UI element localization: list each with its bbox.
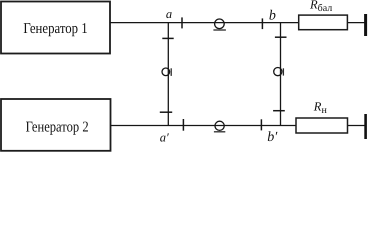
svg-text:Rбал: Rбал — [309, 0, 332, 14]
resistor Rн body — [296, 118, 348, 133]
connector dash under top-wire circle — [213, 29, 226, 31]
connector circle on top wire — [215, 19, 225, 29]
generator G2 box — [1, 99, 111, 151]
clamp tick on top wire after node a — [181, 17, 183, 28]
connector circle on left vertical wire — [162, 68, 170, 76]
connector dash right of right-vertical circle — [282, 68, 284, 75]
wire: right vertical b to b' — [280, 23, 282, 126]
connector circle on bottom wire — [215, 121, 224, 130]
connector circle on right vertical wire — [274, 68, 282, 76]
wire: left vertical a to a' — [167, 23, 169, 126]
svg-text:Генератор 2: Генератор 2 — [26, 119, 89, 135]
clamp tick on top wire before node b — [261, 18, 263, 29]
wire: top horizontal from G1 to right terminal — [110, 22, 365, 24]
svg-text:a: a — [166, 7, 172, 21]
clamp tick on right vertical wire below node b — [275, 36, 287, 38]
clamp tick on bottom wire before node b' — [260, 119, 262, 130]
right terminal bar top — [364, 14, 367, 36]
connector dash under bottom-wire circle — [214, 131, 225, 133]
clamp tick on left vertical wire above node a' — [160, 111, 172, 113]
svg-text:b′: b′ — [267, 130, 278, 145]
clamp tick on right vertical wire above node b' — [273, 110, 285, 112]
svg-text:a′: a′ — [160, 131, 169, 145]
clamp tick on left vertical wire below node a — [162, 37, 173, 39]
wire: bottom horizontal from G2 to right terminal — [111, 125, 366, 127]
resistor Rбал body — [299, 15, 348, 30]
generator G1 box — [1, 2, 110, 54]
svg-text:Генератор 1: Генератор 1 — [23, 21, 87, 37]
clamp tick on bottom wire after node a' — [182, 119, 184, 131]
right terminal bar bottom — [364, 114, 367, 139]
svg-text:Rн: Rн — [313, 99, 328, 116]
svg-text:b: b — [269, 9, 276, 24]
connector dash right of left-vertical circle — [170, 68, 172, 76]
